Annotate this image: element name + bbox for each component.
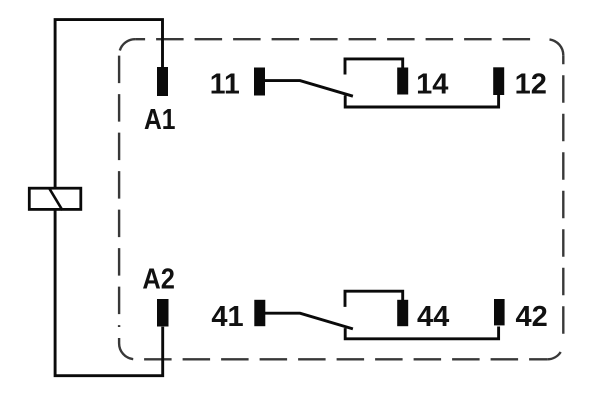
svg-text:A1: A1 [144, 104, 176, 136]
svg-text:14: 14 [416, 68, 448, 100]
svg-text:41: 41 [211, 301, 243, 333]
svg-text:A2: A2 [142, 263, 175, 295]
svg-text:11: 11 [210, 68, 240, 100]
svg-text:12: 12 [515, 68, 547, 100]
svg-text:42: 42 [516, 301, 548, 333]
svg-text:44: 44 [417, 301, 449, 333]
